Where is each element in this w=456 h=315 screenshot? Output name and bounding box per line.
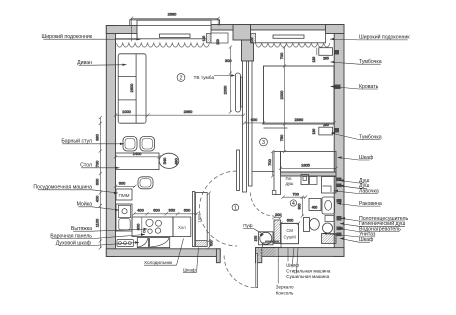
svg-text:2960: 2960 (184, 109, 193, 114)
dishwasher PMM (116, 189, 132, 200)
svg-text:900: 900 (298, 204, 302, 210)
svg-text:200: 200 (275, 212, 282, 217)
svg-text:540: 540 (162, 157, 167, 164)
svg-text:Стиральная машина: Стиральная машина (286, 268, 331, 273)
svg-text:СМ: СМ (286, 228, 293, 233)
svg-text:700: 700 (95, 160, 100, 167)
sliding door leaf (bedroom) (237, 150, 240, 191)
bed foot line (264, 127, 288, 129)
wall: entry jamb left (216, 249, 220, 263)
pouf (259, 232, 274, 245)
svg-text:100: 100 (250, 37, 254, 43)
windowsill board right (273, 35, 304, 38)
svg-text:Сушильная машина: Сушильная машина (286, 274, 329, 279)
svg-text:600: 600 (287, 218, 294, 223)
svg-text:Зеркало: Зеркало (276, 284, 294, 289)
svg-text:600: 600 (153, 208, 160, 213)
svg-text:130: 130 (312, 129, 316, 135)
towel radiator (325, 216, 334, 222)
window niche right (251, 30, 326, 43)
wall: entry jamb right (256, 248, 262, 263)
room number 1 (232, 204, 239, 211)
svg-text:2000: 2000 (222, 85, 227, 94)
TV (241, 77, 243, 107)
mirror (265, 240, 279, 242)
sink counter (309, 199, 321, 211)
curtain wavy line right room (256, 43, 330, 47)
svg-text:Хол: Хол (178, 225, 186, 230)
water heater (323, 223, 333, 233)
svg-text:600: 600 (184, 208, 191, 213)
svg-text:880: 880 (95, 133, 100, 140)
wall: right exterior (334, 34, 344, 257)
svg-text:265: 265 (323, 56, 329, 60)
bar stool 3 (138, 177, 153, 189)
svg-text:Холодильник: Холодильник (144, 260, 173, 265)
svg-text:2600: 2600 (129, 83, 134, 92)
wall stub hatched (hall/bathroom lower) (274, 220, 281, 244)
svg-text:400: 400 (95, 195, 100, 202)
shower enclosure (322, 177, 337, 194)
curtain pocket left window (207, 34, 212, 43)
nightstand top (319, 48, 333, 56)
svg-text:2000: 2000 (279, 90, 284, 99)
bench (310, 177, 318, 185)
svg-text:Пуф: Пуф (243, 223, 253, 228)
kitchen counter (132, 217, 173, 237)
wall: bottom left segment (106, 249, 220, 257)
bar table (116, 153, 160, 170)
svg-text:2: 2 (180, 75, 183, 81)
svg-text:600: 600 (209, 240, 213, 246)
window niche left (137, 20, 211, 39)
svg-text:1000: 1000 (122, 109, 131, 114)
curtain pocket right window (251, 33, 256, 43)
wash basin (322, 197, 335, 214)
svg-text:Шкаф: Шкаф (183, 267, 196, 272)
svg-text:2690: 2690 (168, 11, 177, 16)
hob circles (143, 219, 161, 233)
svg-text:СушМ: СушМ (284, 235, 297, 240)
svg-text:400: 400 (312, 206, 318, 210)
windowsill board left (160, 34, 191, 38)
svg-text:ПММ: ПММ (119, 193, 130, 198)
svg-text:100: 100 (216, 39, 220, 45)
wall: bathroom top (281, 172, 337, 176)
closet (hall, tall) (195, 193, 207, 247)
wall: top-left pier (106, 26, 137, 34)
wardrobe (281, 152, 337, 173)
svg-text:700: 700 (267, 158, 272, 165)
wall: hall/bathroom upper (274, 152, 281, 195)
hall top-right line (252, 171, 274, 173)
svg-text:Консоль: Консоль (276, 291, 294, 296)
room number 4 (290, 200, 296, 206)
svg-text:490: 490 (174, 157, 179, 164)
svg-text:400: 400 (137, 208, 144, 213)
wall: bottom right segment (256, 248, 345, 257)
svg-text:600: 600 (95, 178, 100, 185)
socket strip (117, 240, 134, 247)
svg-text:600: 600 (119, 180, 126, 185)
warming drawer (150, 238, 170, 248)
nightstand bottom (319, 127, 333, 135)
wall: top middle band (211, 25, 251, 31)
svg-text:350: 350 (169, 208, 176, 213)
sink unit (116, 204, 132, 231)
wall marks bathroom (337, 178, 342, 237)
niche inner step left pier (116, 34, 138, 39)
wall: top middle pier block (233, 25, 251, 41)
entry door leaf (256, 254, 258, 288)
wall marks bedroom (335, 50, 341, 133)
entry door swing arc (224, 256, 256, 288)
washing machine column (281, 224, 299, 244)
svg-text:1100: 1100 (95, 218, 100, 227)
svg-text:1805: 1805 (301, 163, 310, 168)
fridge (173, 217, 191, 237)
sofa (118, 54, 146, 123)
bathroom door swing arc (251, 193, 275, 217)
svg-text:600: 600 (251, 117, 258, 122)
room number 3 (260, 138, 268, 146)
hatch: bottom wall infill near entry (256, 248, 275, 256)
table round end (159, 153, 179, 168)
svg-text:130: 130 (312, 57, 316, 63)
dimension 1800/600 hall (95, 11, 338, 249)
svg-text:750: 750 (279, 134, 284, 141)
closet hatched base (195, 241, 207, 247)
wall: partition stem top (living/bedroom) (242, 40, 254, 61)
svg-text:265: 265 (323, 123, 329, 127)
svg-text:2390: 2390 (294, 117, 303, 122)
svg-text:100: 100 (202, 36, 206, 42)
wall: top-right corner pier (326, 25, 345, 34)
wall line across left window niche (137, 24, 211, 26)
niche return box under middle pier (211, 33, 228, 43)
console (263, 243, 282, 248)
svg-text:300: 300 (225, 58, 232, 63)
bathroom cabinet hatched (322, 234, 337, 244)
svg-text:1: 1 (234, 205, 237, 211)
svg-text:4: 4 (292, 201, 295, 207)
svg-text:ТВ тумба: ТВ тумба (194, 75, 215, 81)
hall turning circle (dashed) (200, 171, 238, 246)
curtain wavy line left room (117, 43, 210, 47)
TV stand (235, 73, 240, 112)
pocket wall A (living/bedroom partition) (243, 61, 247, 192)
bar stool 1 (123, 137, 137, 152)
toilet (304, 218, 310, 232)
svg-text:душ: душ (286, 181, 295, 186)
window bay left (protruding) (130, 20, 220, 26)
svg-text:700: 700 (279, 52, 284, 59)
svg-text:1400: 1400 (133, 151, 142, 156)
wall: top band over right window (251, 25, 345, 31)
bed (264, 66, 335, 124)
svg-text:375: 375 (254, 236, 258, 242)
svg-text:700: 700 (292, 191, 299, 196)
door jamb bathroom (272, 191, 276, 195)
oven (137, 238, 148, 248)
wall: left exterior (106, 25, 344, 263)
room number 2 (177, 74, 185, 82)
pocket wall B (249, 61, 253, 186)
hygienic shower box (301, 175, 309, 185)
svg-text:3: 3 (262, 140, 265, 146)
wall: kitchen/hall partition (thin) (192, 192, 194, 247)
bar stool 2 (140, 137, 155, 152)
